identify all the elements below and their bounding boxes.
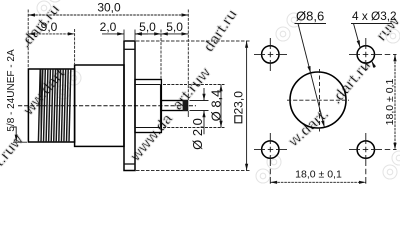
dim square 23,0 bbox=[136, 40, 250, 42]
center hole bbox=[290, 72, 346, 128]
svg-text:5/8 - 24UNEF - 2A: 5/8 - 24UNEF - 2A bbox=[6, 49, 17, 132]
svg-text:9,0: 9,0 bbox=[41, 20, 58, 34]
svg-text:18,0 ± 0,1: 18,0 ± 0,1 bbox=[295, 169, 342, 181]
dim 18,0 bottom bbox=[270, 181, 366, 183]
main body bbox=[75, 65, 124, 146]
svg-text:Ø 8,4: Ø 8,4 bbox=[208, 90, 223, 122]
svg-text:dart.ru: dart.ru bbox=[200, 6, 241, 55]
flange (side) bbox=[124, 41, 135, 171]
watermark rings bbox=[37, 0, 400, 183]
contact pin bbox=[161, 101, 187, 111]
svg-text:.dart.ru: .dart.ru bbox=[328, 57, 374, 108]
svg-text:30,0: 30,0 bbox=[97, 1, 121, 15]
svg-text:w.dart.: w.dart. bbox=[285, 105, 333, 150]
thread start line bbox=[40, 69, 42, 142]
svg-text:rt.ruw: rt.ruw bbox=[0, 131, 27, 174]
dim 5,0 first bbox=[160, 30, 162, 80]
dim 18,0 right bbox=[394, 54, 396, 149]
thread leader bbox=[13, 127, 16, 141]
hole bottom-right bbox=[357, 141, 374, 158]
rear sleeve inner (dia 8,4) bbox=[135, 84, 161, 86]
svg-text:18,0 ± 0,1: 18,0 ± 0,1 bbox=[384, 79, 396, 126]
svg-text:23,0: 23,0 bbox=[232, 91, 246, 115]
thread designation 5/8-24UNEF-2A bbox=[6, 49, 17, 132]
svg-text:www.da: www.da bbox=[126, 110, 176, 165]
svg-text:2,0: 2,0 bbox=[100, 20, 117, 34]
rear sleeve outer bbox=[135, 80, 161, 133]
svg-text:Ø8,6: Ø8,6 bbox=[296, 9, 324, 24]
dim dia 2,0 pin bbox=[190, 100, 209, 102]
hole top-left bbox=[262, 46, 279, 63]
thread hatch bbox=[38, 69, 70, 142]
dim 2,0 flange thickness bbox=[123, 30, 125, 41]
dim 5,0 second bbox=[161, 33, 188, 35]
hole top-right bbox=[357, 46, 374, 63]
svg-text:4 x Ø3,2: 4 x Ø3,2 bbox=[352, 9, 397, 23]
pin end solid tip bbox=[183, 100, 188, 111]
dim 9,0 bbox=[74, 29, 76, 64]
centerline bbox=[18, 105, 196, 107]
svg-text:Ø 2,0: Ø 2,0 bbox=[190, 118, 205, 150]
svg-text:5,0: 5,0 bbox=[139, 20, 156, 34]
dim 30,0 bbox=[27, 10, 29, 69]
dim dia 8,4 bbox=[163, 84, 225, 86]
svg-text:5,0: 5,0 bbox=[166, 20, 183, 34]
flange corner lines bbox=[124, 48, 135, 50]
hole bottom-left bbox=[262, 141, 279, 158]
coupling nut bbox=[28, 69, 74, 142]
watermark bands bbox=[0, 1, 400, 175]
